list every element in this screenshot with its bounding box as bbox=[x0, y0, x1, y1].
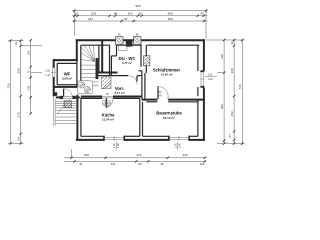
svg-text:Schlafzimmer: Schlafzimmer bbox=[153, 67, 181, 72]
right dimension chain C total 736 bbox=[238, 39, 243, 145]
svg-text:441: 441 bbox=[110, 162, 115, 165]
svg-text:925: 925 bbox=[135, 4, 140, 8]
svg-text:46: 46 bbox=[160, 162, 164, 165]
left dimension chain D openings bbox=[27, 39, 42, 115]
window bottom bauernstube bbox=[169, 136, 189, 141]
inner wall line top: stair bbox=[81, 44, 110, 46]
svg-text:229: 229 bbox=[182, 153, 187, 157]
svg-text:13,30 m²: 13,30 m² bbox=[160, 73, 172, 77]
entrance door leaf and swing bbox=[63, 89, 65, 97]
wf window bbox=[52, 68, 55, 78]
svg-text:486: 486 bbox=[220, 104, 224, 109]
kueche stove fixture bbox=[102, 100, 111, 106]
room label schlafzimmer bbox=[153, 67, 181, 76]
chimney dark block bbox=[126, 40, 133, 47]
svg-text:42: 42 bbox=[14, 41, 18, 45]
bottom witness bbox=[70, 149, 72, 159]
svg-text:16,12 m²: 16,12 m² bbox=[163, 116, 175, 120]
wf top wall bbox=[53, 59, 78, 61]
svg-text:197: 197 bbox=[158, 94, 163, 97]
room label bauernstube bbox=[156, 111, 182, 120]
svg-text:64: 64 bbox=[228, 134, 232, 138]
inner wall line right: bauernstube bbox=[197, 101, 199, 137]
svg-text:1,40: 1,40 bbox=[178, 143, 181, 148]
top dimension chain total 925 bbox=[72, 4, 208, 12]
kueche left wall bbox=[76, 95, 78, 141]
stair treads bbox=[81, 65, 98, 85]
svg-text:360: 360 bbox=[230, 68, 234, 73]
svg-text:87: 87 bbox=[124, 17, 128, 21]
svg-text:1,40: 1,40 bbox=[208, 78, 213, 81]
wf/stair divider faces bbox=[76, 61, 78, 87]
kachelofen hatched bbox=[144, 56, 150, 66]
right connectors bbox=[206, 39, 245, 41]
stair right wall bbox=[98, 45, 100, 72]
svg-text:270: 270 bbox=[17, 112, 21, 117]
svg-text:6,17 m²: 6,17 m² bbox=[114, 91, 124, 95]
inner wall line bottom kueche bbox=[81, 135, 104, 137]
svg-text:42: 42 bbox=[230, 41, 234, 45]
svg-text:190: 190 bbox=[27, 50, 30, 55]
top dimension chain line3 bbox=[72, 17, 208, 22]
stair newel bbox=[96, 58, 99, 79]
left dimension chain total 736 bbox=[6, 39, 12, 144]
outer wall top bbox=[76, 39, 205, 41]
right dimension chain B rooms bbox=[228, 39, 235, 145]
chimney flue niche bbox=[119, 45, 127, 50]
svg-text:502: 502 bbox=[168, 17, 173, 21]
svg-text:360: 360 bbox=[17, 68, 21, 73]
room label kueche bbox=[102, 112, 115, 121]
vorr to kueche door leaf bbox=[105, 98, 107, 108]
stair direction arrow bbox=[57, 99, 71, 115]
outer wall bottom bbox=[76, 139, 105, 141]
top witness lines bbox=[73, 11, 75, 36]
left dimension chain segments bbox=[14, 39, 22, 144]
stair winder fan bbox=[81, 46, 94, 62]
bathtub with basins bbox=[78, 81, 93, 94]
kueche/bauern divider vertical bbox=[139, 98, 141, 136]
inner wall line top: du-wc bbox=[117, 44, 142, 46]
room label vorr bbox=[114, 86, 124, 95]
svg-text:1,00: 1,00 bbox=[174, 143, 177, 148]
window bottom kueche bbox=[104, 136, 124, 141]
entrance hatch square bbox=[64, 101, 72, 108]
chimney blocks top bbox=[116, 34, 123, 45]
svg-text:64: 64 bbox=[17, 137, 21, 141]
svg-text:252: 252 bbox=[230, 111, 234, 116]
svg-text:400: 400 bbox=[167, 11, 172, 15]
vorr/schlaf divider vertical bbox=[140, 45, 142, 67]
svg-text:41: 41 bbox=[79, 162, 83, 165]
svg-text:476: 476 bbox=[136, 153, 141, 157]
svg-text:84: 84 bbox=[138, 162, 142, 165]
svg-text:229: 229 bbox=[91, 11, 96, 15]
svg-text:Bauernstube: Bauernstube bbox=[156, 111, 182, 116]
svg-text:11,04 m²: 11,04 m² bbox=[102, 118, 114, 122]
room label wf bbox=[62, 71, 72, 80]
inner wall line right: schlafzimmer bbox=[197, 45, 199, 71]
left top/bottom connectors bbox=[8, 40, 24, 42]
hall bottom wall with entrance door bbox=[56, 96, 60, 98]
shower hatched bbox=[102, 77, 112, 89]
svg-text:736: 736 bbox=[6, 83, 10, 88]
schlafzimmer door bbox=[157, 86, 159, 99]
svg-text:220: 220 bbox=[84, 153, 89, 157]
top dimension chain line2 bbox=[72, 11, 208, 17]
inner wall line top: schlafzimmer bbox=[146, 44, 199, 46]
right wall window bbox=[200, 72, 204, 86]
inner wall line bottom bauernstube bbox=[143, 135, 170, 137]
wf left wall inner bbox=[56, 63, 58, 85]
svg-text:162: 162 bbox=[127, 11, 132, 15]
svg-text:1,42: 1,42 bbox=[45, 74, 50, 77]
entrance steps bbox=[53, 96, 77, 126]
mid wall vorr/kueche bbox=[81, 96, 102, 98]
wf left wall outer bbox=[53, 59, 55, 67]
svg-text:42: 42 bbox=[200, 11, 204, 15]
svg-text:5,96 m²: 5,96 m² bbox=[62, 76, 72, 80]
bottom dimension chain line1 bbox=[64, 153, 206, 159]
du-wc door leaf+arc bbox=[136, 76, 138, 82]
svg-text:142: 142 bbox=[27, 85, 30, 90]
room label du-wc bbox=[119, 56, 136, 65]
svg-text:1,40: 1,40 bbox=[117, 143, 120, 148]
svg-text:337: 337 bbox=[88, 17, 93, 21]
svg-text:736: 736 bbox=[238, 84, 242, 89]
landing south wall bbox=[98, 72, 118, 74]
du-wc west wall bbox=[109, 45, 111, 76]
outer wall right bbox=[203, 39, 205, 70]
wf bottom wall bbox=[53, 86, 82, 88]
svg-text:1,55: 1,55 bbox=[45, 70, 50, 73]
svg-text:4,77 m²: 4,77 m² bbox=[122, 61, 132, 65]
left wall upper outer bbox=[76, 39, 78, 61]
left pillar bbox=[53, 92, 57, 96]
bottom dimension chain line2 (cut) bbox=[64, 160, 206, 166]
svg-text:1,00: 1,00 bbox=[113, 143, 116, 148]
svg-text:230: 230 bbox=[220, 54, 224, 59]
schlaf/bauern divider wall bbox=[142, 99, 158, 101]
right dimension chain A openings bbox=[217, 39, 225, 145]
